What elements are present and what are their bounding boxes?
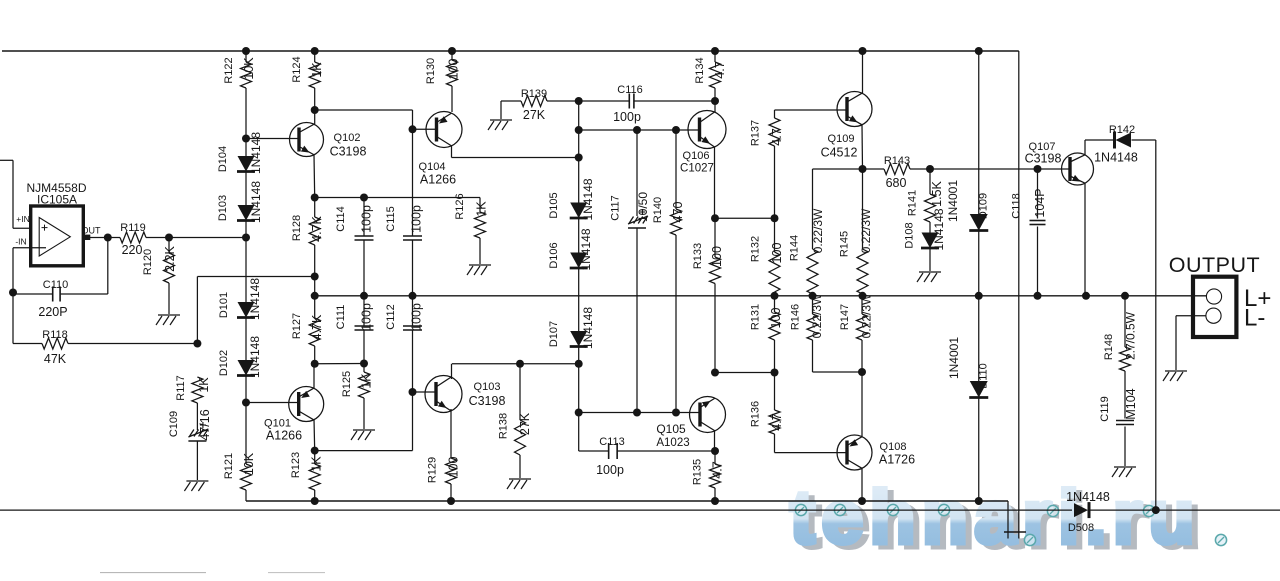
diode D106: [570, 253, 588, 269]
svg-text:C1027: C1027: [680, 163, 714, 175]
wire Q102 base: [246, 138, 299, 140]
label 1N4148 D104: [249, 132, 263, 174]
capacitor C109 electrolytic: [188, 422, 208, 480]
svg-text:1K: 1K: [475, 201, 489, 217]
svg-text:A1726: A1726: [879, 453, 915, 467]
svg-text:C3198: C3198: [330, 145, 367, 159]
junction dot R124 top: [311, 47, 319, 55]
label 0.22/3W value R147: [860, 293, 874, 338]
resistor R148: [1120, 296, 1131, 419]
diode D101: [237, 302, 255, 318]
svg-text:100p: 100p: [596, 463, 624, 477]
label R148: [1103, 334, 1115, 360]
svg-text:D105: D105: [548, 192, 560, 218]
svg-text:Q108: Q108: [880, 441, 907, 453]
capacitor C114: [355, 198, 374, 296]
resistor R122: [241, 51, 252, 156]
resistor R132: [769, 218, 780, 296]
label R131: [750, 304, 762, 330]
junction dot Q101 emitter node: [311, 360, 319, 368]
wire comp node down: [578, 101, 580, 158]
junction dot R129 bottom: [447, 497, 455, 505]
svg-text:100p: 100p: [410, 205, 424, 233]
svg-text:R120: R120: [142, 249, 154, 275]
label IC105A: [37, 193, 77, 207]
faint bottom margin mark: [100, 572, 325, 574]
resistor R138: [515, 364, 526, 478]
label R136: [750, 401, 762, 427]
junction dot C118 top: [1034, 165, 1042, 173]
connector terminal L+ circle: [1206, 289, 1221, 304]
svg-text:R127: R127: [291, 313, 303, 339]
svg-text:R128: R128: [291, 215, 303, 241]
label OUT: [82, 226, 102, 236]
svg-text:C119: C119: [1099, 396, 1111, 421]
junction dot C118 rail: [1034, 292, 1042, 300]
wire Q106 base: [676, 129, 700, 131]
label R142: [1109, 124, 1135, 136]
wire D102 to Q101 base node: [245, 376, 247, 403]
svg-text:R118: R118: [42, 329, 67, 341]
label R118: [42, 329, 67, 341]
label D108: [904, 222, 916, 248]
diode D107: [570, 331, 588, 347]
svg-text:1K: 1K: [360, 373, 374, 389]
svg-text:1N4148: 1N4148: [248, 336, 262, 378]
svg-text:47/16: 47/16: [198, 409, 212, 440]
svg-text:220P: 220P: [38, 305, 67, 319]
resistor R118: [13, 293, 197, 350]
wire R146/R147 join: [813, 371, 863, 373]
label R117: [175, 375, 187, 400]
svg-text:100: 100: [710, 246, 724, 267]
wire input from left edge: [0, 160, 31, 228]
svg-text:R144: R144: [789, 235, 801, 261]
junction dot R135 bottom: [711, 497, 719, 505]
svg-text:100p: 100p: [613, 110, 641, 124]
junction dot L+ line on lower rail: [1152, 506, 1160, 514]
ground L-: [1163, 371, 1187, 381]
svg-text:R146: R146: [790, 304, 802, 330]
junction dot Q109 emitter node: [859, 165, 867, 173]
label 4.7 value R136: [770, 413, 784, 430]
label D106: [548, 242, 560, 268]
junction dot R148 top: [1121, 292, 1129, 300]
resistor R126: [475, 198, 486, 265]
svg-text:100: 100: [447, 59, 461, 80]
wire Q103 collector: [451, 364, 453, 379]
label Q104: [419, 161, 446, 173]
transistor Q105: [690, 397, 726, 433]
label C3198 Q102: [330, 145, 367, 159]
label A1726 Q108: [879, 453, 915, 467]
label C111: [335, 305, 347, 330]
junction dot D109/D110 rail: [975, 292, 983, 300]
svg-text:C114: C114: [335, 206, 347, 231]
wire Q108 collector: [861, 468, 863, 501]
junction dot R120 tap: [165, 234, 173, 242]
wire top supply rail: [2, 50, 1019, 52]
svg-text:1.5K: 1.5K: [930, 180, 944, 206]
wire Q101 base: [246, 402, 299, 404]
junction dot Q104 base node: [409, 125, 417, 133]
wire D105-D106: [578, 218, 580, 253]
label M104 value C119: [1124, 388, 1138, 419]
svg-text:C109: C109: [168, 411, 180, 437]
label -IN: [15, 237, 26, 247]
label C109: [168, 411, 180, 437]
label Q102: [334, 132, 361, 144]
capacitor C110: [13, 238, 108, 302]
svg-text:1N4148: 1N4148: [248, 278, 262, 320]
diode R142 1N4148: [1115, 132, 1132, 149]
label 1N4148 R142: [1094, 151, 1138, 165]
resistor R125: [359, 364, 370, 430]
svg-text:R145: R145: [839, 231, 851, 257]
label Q105: [656, 422, 686, 436]
label R130: [425, 58, 437, 84]
junction dot VAS collector node: [575, 360, 583, 368]
svg-text:C3198: C3198: [469, 394, 506, 408]
label Q108: [880, 441, 907, 453]
ground R120: [156, 315, 180, 325]
wire R137 top corner: [775, 110, 847, 118]
label 47K value: [44, 352, 67, 366]
label C110: [43, 279, 68, 291]
junction dot Q107 emitter rail: [1082, 292, 1090, 300]
svg-text:A1266: A1266: [266, 429, 302, 443]
transistor Q107: [1062, 153, 1094, 185]
label C113: [599, 436, 624, 448]
svg-text:C110: C110: [43, 279, 68, 291]
label D102: [218, 350, 230, 376]
label 1K value R117: [197, 377, 211, 393]
label R128: [291, 215, 303, 241]
transistor Q102: [290, 123, 324, 157]
wire Q108 emitter: [861, 372, 863, 437]
label C115: [385, 206, 397, 231]
svg-text:R122: R122: [223, 57, 235, 83]
label 100 value R131: [769, 308, 783, 329]
junction dot R141 top: [926, 165, 934, 173]
label 1N4148 D108: [932, 208, 946, 250]
resistor R135: [710, 451, 721, 501]
svg-text:Q106: Q106: [683, 150, 710, 162]
label R119: [120, 222, 145, 234]
svg-text:R135: R135: [692, 459, 704, 485]
wire Q106 emitter: [714, 147, 716, 218]
junction dot Q108 emitter node: [858, 368, 866, 376]
svg-text:A1266: A1266: [420, 173, 456, 187]
wire Q107 base row: [930, 168, 1070, 170]
svg-text:R136: R136: [750, 401, 762, 427]
resistor R139: [521, 96, 547, 107]
junction dot bias node: [242, 234, 250, 242]
svg-text:C3198: C3198: [1025, 152, 1062, 166]
label 10K value R122: [242, 57, 256, 80]
label R147: [839, 304, 851, 330]
capacitor C115: [403, 129, 422, 295]
ground D108: [917, 272, 941, 282]
wire Q105 collector: [714, 431, 716, 451]
label D110: [978, 363, 990, 388]
svg-text:Q104: Q104: [419, 161, 446, 173]
wire D109 to rail: [978, 231, 980, 296]
junction dot Q101 collector node: [311, 447, 319, 455]
wire VAS node down: [578, 364, 580, 413]
junction dot R134 top: [711, 47, 719, 55]
svg-text:C117: C117: [610, 195, 622, 220]
label R129: [427, 457, 439, 483]
svg-text:4.7: 4.7: [713, 61, 727, 78]
wire Q102 emitter row: [315, 197, 480, 199]
diode D110: [969, 381, 988, 398]
junction dot Q102 base node: [242, 135, 250, 143]
svg-text:R148: R148: [1103, 334, 1115, 360]
svg-text:4.7K: 4.7K: [310, 215, 324, 241]
svg-text:D109: D109: [978, 193, 990, 219]
wire collector row: [452, 363, 579, 365]
wire Q105 base row: [579, 412, 701, 414]
op-amp output stub: [83, 235, 90, 240]
svg-text:R129: R129: [427, 457, 439, 483]
label R144: [789, 235, 801, 261]
label R124: [291, 56, 303, 82]
svg-text:Q102: Q102: [334, 132, 361, 144]
op-amp U1 triangle: [39, 218, 70, 257]
svg-text:4.7: 4.7: [770, 128, 784, 145]
capacitor C119: [1116, 421, 1134, 467]
wire Q107 collector: [1085, 140, 1113, 155]
svg-text:1K: 1K: [310, 62, 324, 78]
svg-text:D106: D106: [548, 242, 560, 268]
resistor R146: [807, 296, 818, 372]
resistor R143: [863, 164, 931, 175]
svg-text:0.22/3W: 0.22/3W: [811, 208, 825, 253]
wire Q103 base: [413, 391, 437, 393]
label 100p value C116: [613, 110, 641, 124]
wire Q109 collector: [862, 51, 864, 93]
svg-text:C4512: C4512: [821, 146, 858, 160]
resistor R117: [192, 377, 203, 430]
junction dot Q103 base node: [409, 388, 417, 396]
wire C117 row: [579, 129, 676, 131]
svg-text:0.22/3W: 0.22/3W: [860, 293, 874, 338]
label R135: [692, 459, 704, 485]
svg-text:A1023: A1023: [656, 437, 689, 449]
label 4.7 value R135: [711, 461, 725, 478]
wire D107 to collector row: [578, 347, 580, 364]
svg-text:D104: D104: [217, 146, 229, 172]
transistor Q108: [837, 435, 872, 470]
wire mirror link: [315, 392, 413, 451]
svg-text:R138: R138: [498, 413, 510, 439]
junction dot C117 top: [633, 126, 641, 134]
label D107: [548, 321, 560, 347]
svg-text:R139: R139: [521, 88, 547, 100]
wire R139 left: [501, 100, 521, 102]
label R127: [291, 313, 303, 339]
resistor R134: [710, 51, 721, 101]
label 100p value C114: [360, 205, 374, 233]
svg-text:1N4148: 1N4148: [579, 228, 593, 270]
label 100 value R130: [447, 59, 461, 80]
svg-text:Q105: Q105: [656, 422, 686, 436]
junction dot C115 rail: [409, 292, 417, 300]
label 1N4001 D109: [946, 180, 960, 222]
svg-text:R143: R143: [884, 155, 910, 167]
junction dot rail R144/R146: [809, 292, 817, 300]
junction dot C114 top: [360, 194, 368, 202]
label 10K value R121: [242, 452, 256, 475]
wire R139 to C116: [547, 100, 579, 102]
svg-text:R125: R125: [341, 371, 353, 397]
svg-text:1N4001: 1N4001: [946, 180, 960, 222]
label 100p value C112: [410, 303, 424, 331]
wire Q101 emitter node to C111: [315, 363, 364, 365]
resistor R120: [164, 238, 175, 315]
label D105: [548, 192, 560, 218]
svg-text:C111: C111: [335, 305, 347, 330]
wire Q105 emitter row: [715, 372, 775, 374]
junction dot out node: [104, 234, 112, 242]
svg-text:R142: R142: [1109, 124, 1135, 136]
svg-text:100p: 100p: [410, 303, 424, 331]
wire Q108 base row: [775, 452, 847, 454]
label 1.5K value R141: [930, 180, 944, 206]
svg-text:220: 220: [122, 243, 143, 257]
label 1N4001 D110: [947, 337, 961, 379]
junction dot Q109 collector rail: [859, 47, 867, 55]
wire D109 leg: [978, 51, 980, 214]
label L-: [1244, 305, 1265, 332]
diode D102: [237, 360, 255, 376]
label 220 value: [122, 243, 143, 257]
resistor R133: [710, 218, 721, 372]
svg-text:C115: C115: [385, 206, 397, 231]
wire feedback node up to R128 bottom: [197, 277, 314, 344]
svg-text:D101: D101: [218, 292, 230, 318]
label 100 value R132: [770, 243, 784, 264]
junction dot rail R127/R128: [311, 292, 319, 300]
wire D104-D103: [245, 172, 247, 206]
wire Q101 collector: [313, 419, 316, 451]
svg-text:IC105A: IC105A: [37, 193, 77, 207]
junction dot Q101 base node: [242, 399, 250, 407]
junction dot C117 bottom: [633, 409, 641, 417]
resistor R145: [857, 169, 868, 296]
label R120: [142, 249, 154, 275]
label C3198 Q103: [469, 394, 506, 408]
svg-text:R141: R141: [907, 190, 919, 216]
label R121: [223, 453, 235, 479]
label 1N4148 D102: [248, 336, 262, 378]
junction dot R122 top: [242, 47, 250, 55]
junction node -IN/C110/R118: [9, 289, 17, 297]
label R138: [498, 413, 510, 439]
label A1266 Q104: [420, 173, 456, 187]
resistor R119: [120, 232, 146, 243]
resistor R127: [309, 296, 320, 364]
wire bottom rail corner drop: [1007, 501, 1009, 539]
watermark tehnari.ru: [790, 475, 1227, 563]
junction dot R130 top: [448, 47, 456, 55]
junction dot Q102 emitter node: [311, 194, 319, 202]
wire Q109 emitter: [861, 125, 864, 169]
svg-text:1K: 1K: [310, 456, 324, 472]
resistor R137: [769, 118, 780, 218]
label 1N4148 D103: [249, 181, 263, 223]
junction dot R132 top: [771, 214, 779, 222]
svg-text:0.22/3W: 0.22/3W: [810, 293, 824, 338]
wire R142 diode to L+ drop: [1132, 140, 1156, 510]
label R143: [884, 155, 910, 167]
diode D108: [921, 233, 939, 249]
label R122: [223, 57, 235, 83]
label 100p value C115: [410, 205, 424, 233]
label C1027 Q106: [680, 163, 714, 175]
svg-text:100: 100: [447, 457, 461, 478]
label 100p value C111: [360, 303, 374, 331]
label C3198 Q107: [1025, 152, 1062, 166]
resistor R136: [769, 373, 780, 453]
wire Q107 emitter: [1084, 183, 1086, 296]
svg-text:M104: M104: [1124, 388, 1138, 419]
junction dot R134 bottom node: [711, 97, 719, 105]
svg-text:R140: R140: [652, 197, 664, 223]
svg-text:+IN: +IN: [16, 214, 29, 224]
resistor R141: [925, 169, 936, 233]
label 10/50 value C117: [636, 192, 650, 222]
svg-text:1N4148: 1N4148: [1066, 490, 1110, 504]
label 1K value R123: [310, 456, 324, 472]
svg-text:D508: D508: [1068, 522, 1094, 534]
svg-text:C118: C118: [1011, 193, 1023, 218]
label 1K value R124: [310, 62, 324, 78]
label D109: [978, 193, 990, 219]
ground R126: [467, 265, 491, 275]
diode D508: [1074, 502, 1089, 518]
svg-text:0.22/3W: 0.22/3W: [859, 208, 873, 253]
svg-text:4.7K: 4.7K: [310, 314, 324, 340]
svg-text:R137: R137: [750, 120, 762, 146]
label R123: [290, 452, 302, 478]
wire emitter row: [715, 217, 775, 219]
wire R134 to Q106 collector: [714, 101, 716, 112]
op-amp plus input mark: [42, 225, 48, 231]
label 104P value C118: [1033, 188, 1047, 217]
wire D110 leg: [978, 296, 980, 381]
wire VAS to D105: [578, 158, 580, 203]
label 100 value R133: [710, 246, 724, 267]
svg-text:R132: R132: [750, 236, 762, 262]
label 4.7 value R137: [770, 128, 784, 145]
svg-text:R134: R134: [694, 57, 706, 83]
svg-text:-IN: -IN: [15, 237, 26, 247]
label R134: [694, 57, 706, 83]
svg-text:1N4001: 1N4001: [947, 337, 961, 379]
resistor R147: [857, 296, 868, 372]
label 0.22/3W value R144: [811, 208, 825, 253]
label R126: [454, 193, 466, 219]
svg-text:1K: 1K: [197, 377, 211, 393]
wire op-amp out to R119: [90, 237, 120, 239]
label 1N4148 D107: [581, 307, 595, 349]
label R133: [692, 243, 704, 269]
label 0.22/3W value R146: [810, 293, 824, 338]
ground R125: [351, 430, 375, 440]
svg-text:OUT: OUT: [82, 226, 102, 236]
